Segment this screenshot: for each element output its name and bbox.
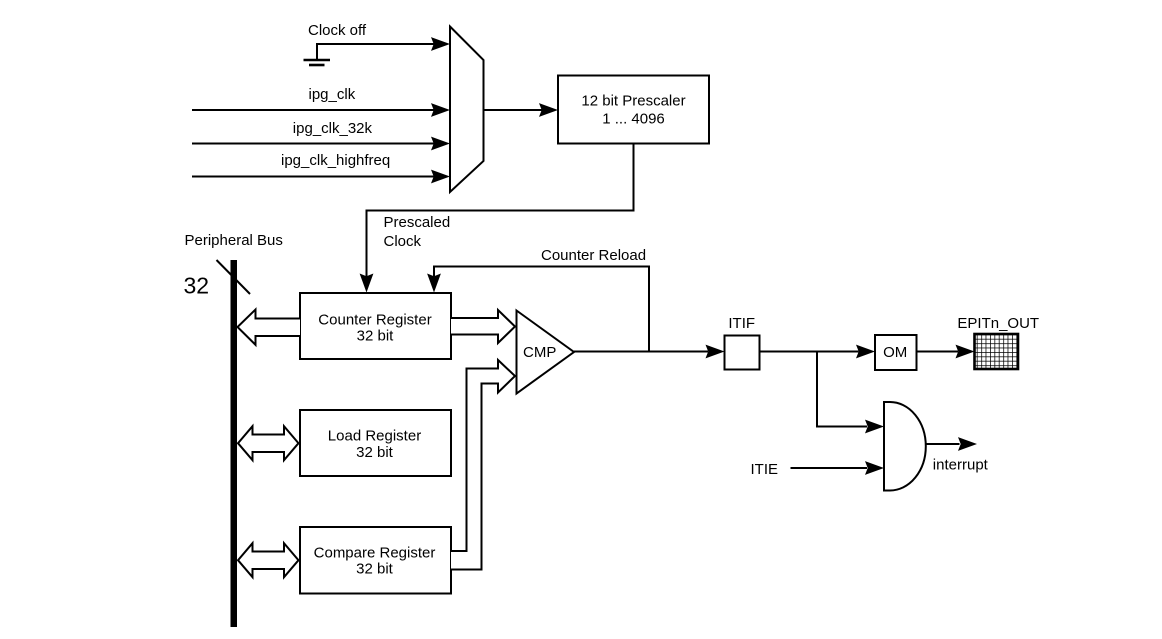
svg-text:Load Register: Load Register [328,428,421,445]
svg-text:CMP: CMP [523,344,556,361]
svg-text:ITIF: ITIF [728,315,755,332]
svg-text:Compare Register: Compare Register [314,544,436,561]
svg-text:Counter Register: Counter Register [318,311,431,328]
svg-text:32 bit: 32 bit [357,327,395,344]
svg-text:EPITn_OUT: EPITn_OUT [957,315,1039,332]
svg-text:OM: OM [883,344,907,361]
svg-text:12 bit Prescaler: 12 bit Prescaler [581,92,685,109]
svg-text:ipg_clk: ipg_clk [309,86,356,103]
svg-text:Counter Reload: Counter Reload [541,247,646,264]
svg-text:Clock: Clock [384,233,422,250]
svg-text:32 bit: 32 bit [356,444,394,461]
svg-text:ipg_clk_highfreq: ipg_clk_highfreq [281,152,390,169]
svg-text:32: 32 [184,273,210,299]
svg-text:Prescaled: Prescaled [384,214,451,231]
svg-text:interrupt: interrupt [933,457,989,474]
svg-text:1 ... 4096: 1 ... 4096 [602,110,665,127]
svg-text:ipg_clk_32k: ipg_clk_32k [293,120,373,137]
svg-text:32 bit: 32 bit [356,561,394,578]
svg-text:Clock off: Clock off [308,22,367,39]
svg-text:ITIE: ITIE [751,461,779,478]
svg-text:Peripheral Bus: Peripheral Bus [185,232,283,249]
